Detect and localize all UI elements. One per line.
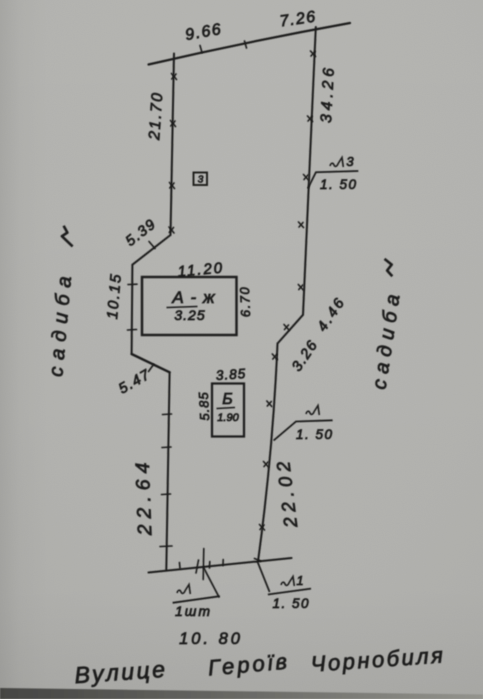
wire: left 10.15 segment	[131, 265, 134, 354]
svg-text:3: 3	[198, 175, 204, 186]
survey tick left line y186	[170, 183, 175, 189]
survey tick bottom line x210	[209, 562, 211, 569]
svg-text:34.26: 34.26	[318, 64, 338, 124]
node marker 1шт leader line	[203, 567, 219, 598]
1шт underline	[173, 596, 220, 603]
svg-text:10. 80: 10. 80	[179, 630, 243, 648]
node marker N (right, mid) leader line	[274, 420, 333, 440]
point marker box 3	[194, 173, 208, 186]
survey tick left line y77	[172, 74, 177, 80]
survey tick left line y230	[169, 227, 174, 233]
node marker N1 leader line	[257, 561, 269, 592]
wire: 5.47 diagonal segment	[132, 354, 170, 372]
svg-text:А - ж: А - ж	[171, 288, 215, 307]
survey tick right line y288	[298, 285, 303, 291]
svg-text:1. 50: 1. 50	[320, 177, 358, 192]
survey tick bottom line x180	[179, 563, 182, 569]
survey tick bottom line x223	[222, 560, 224, 566]
survey tick on 5.47 diagonal	[149, 365, 154, 372]
svg-text:22.64: 22.64	[132, 456, 157, 537]
svg-text:1. 50: 1. 50	[296, 427, 334, 442]
node marker N3 leader line	[308, 171, 359, 189]
left neighbour № squiggle	[62, 226, 73, 247]
svg-text:1шт: 1шт	[175, 603, 212, 619]
survey tick left line y124	[171, 121, 176, 127]
fraction line under Б	[217, 408, 236, 409]
survey tick bottom line right junction x257	[255, 559, 261, 562]
survey tick bottom line x197 (slanted)	[196, 560, 199, 573]
wire: bottom boundary (street) line	[149, 558, 292, 573]
survey tick left 22.64 segment y447	[162, 446, 171, 449]
right neighbour № squiggle	[385, 259, 393, 276]
svg-text:1.90: 1.90	[217, 412, 239, 424]
survey tick on 5.39 diagonal	[149, 242, 155, 249]
svg-text:1: 1	[296, 573, 303, 588]
svg-text:5.85: 5.85	[196, 391, 213, 421]
wire: right boundary 34.26 segment	[303, 27, 316, 315]
survey marker stroke bottom line x203 (1шт point)	[202, 549, 205, 580]
survey tick right 22.02 segment y527	[260, 525, 265, 531]
bottom photo edge band	[0, 688, 483, 699]
survey tick on top line at x245	[245, 41, 247, 48]
wire: left boundary 22.64 segment	[166, 372, 169, 570]
wire: top boundary line	[149, 23, 351, 65]
survey tick on top line at x201	[200, 46, 202, 53]
fraction line under А-ж	[167, 307, 198, 308]
svg-text:6.70: 6.70	[237, 286, 253, 318]
survey tick right line y54	[311, 51, 316, 57]
svg-text:3.85: 3.85	[215, 366, 246, 383]
building Б outline	[212, 384, 244, 437]
node N squiggle (1шт)	[177, 585, 190, 595]
svg-text:21.70: 21.70	[146, 91, 166, 142]
node N1 squiggle	[281, 577, 294, 587]
survey tick right line y119	[308, 116, 313, 122]
survey tick right 22.02 segment y465	[264, 462, 269, 468]
svg-text:3: 3	[346, 154, 354, 169]
survey tick left 10.15 segment y330	[128, 329, 137, 332]
survey tick right 22.02 segment y404	[267, 401, 272, 407]
svg-text:3.25: 3.25	[174, 307, 205, 323]
wire: 3.26 diagonal segment	[278, 315, 304, 344]
building A outline	[142, 277, 237, 335]
wire: 5.39 diagonal segment	[132, 235, 170, 265]
survey tick left 22.64 segment y543	[160, 545, 172, 548]
node N squiggle (right mid)	[306, 406, 319, 416]
survey tick left 22.64 segment y414	[163, 413, 172, 416]
survey tick right line y177	[304, 175, 309, 181]
wire: right boundary 22.02 segment	[258, 344, 277, 561]
N1 underline	[268, 589, 311, 595]
survey tick right line y225	[299, 222, 304, 228]
wire: left boundary 21.70 segment	[171, 54, 175, 236]
svg-text:Б: Б	[222, 391, 232, 408]
survey tick on 3.26 diagonal	[284, 325, 289, 331]
survey tick right 22.02 segment y357	[272, 354, 277, 360]
survey tick left 10.15 segment y284	[128, 283, 137, 285]
svg-text:1. 50: 1. 50	[273, 596, 311, 611]
survey tick left 22.64 segment y494	[162, 493, 171, 496]
node N3 squiggle	[330, 158, 343, 168]
